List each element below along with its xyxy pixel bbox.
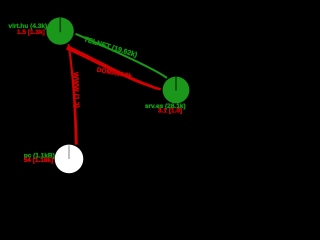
node C circle (55, 145, 84, 174)
node C notch (68, 145, 70, 159)
wire: green link A-B (76, 34, 168, 78)
wire: red link A-B (66, 45, 161, 90)
node A circle (46, 17, 73, 44)
svg-text:WWW (1.3): WWW (1.3) (72, 72, 80, 108)
node A notch (59, 18, 61, 32)
svg-text:54 [1.18k]: 54 [1.18k] (24, 157, 54, 164)
svg-text:3.1 [1.0]: 3.1 [1.0] (158, 108, 182, 115)
node B notch (175, 77, 177, 91)
svg-text:1.5 [1.3k]: 1.5 [1.3k] (17, 29, 45, 36)
node B circle (163, 77, 190, 104)
wire: red link A-C (68, 44, 78, 145)
